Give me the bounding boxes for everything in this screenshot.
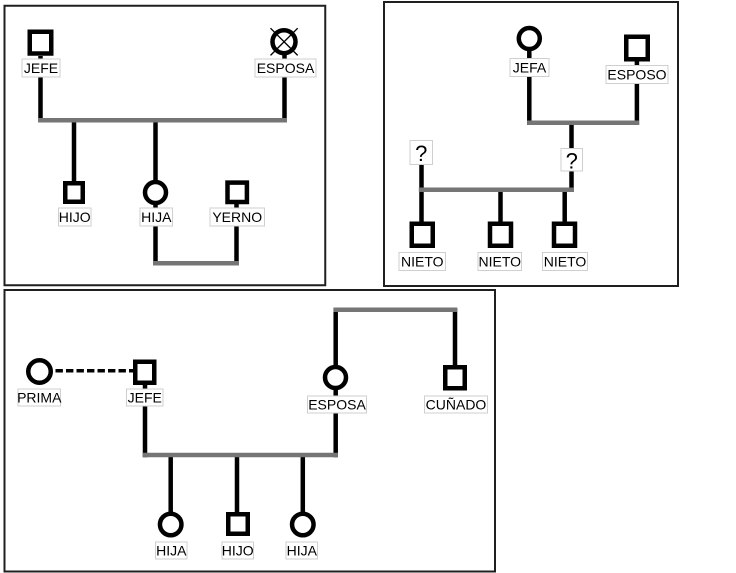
svg-text:JEFE: JEFE (24, 60, 58, 76)
svg-text:HIJA: HIJA (287, 543, 318, 559)
svg-text:HIJA: HIJA (141, 209, 172, 225)
svg-text:ESPOSA: ESPOSA (308, 397, 366, 413)
svg-text:JEFA: JEFA (513, 60, 547, 76)
svg-text:CUÑADO: CUÑADO (426, 397, 487, 413)
svg-text:PRIMA: PRIMA (17, 390, 62, 406)
svg-text:HIJA: HIJA (156, 543, 187, 559)
svg-text:?: ? (415, 141, 427, 166)
svg-text:ESPOSO: ESPOSO (607, 67, 666, 83)
svg-text:JEFE: JEFE (128, 390, 162, 406)
svg-text:YERNO: YERNO (212, 209, 262, 225)
svg-text:HIJO: HIJO (59, 209, 91, 225)
svg-text:ESPOSA: ESPOSA (257, 60, 315, 76)
svg-text:?: ? (566, 149, 578, 174)
svg-text:NIETO: NIETO (478, 254, 521, 270)
svg-text:HIJO: HIJO (222, 543, 254, 559)
svg-text:NIETO: NIETO (401, 254, 444, 270)
svg-text:NIETO: NIETO (544, 254, 587, 270)
